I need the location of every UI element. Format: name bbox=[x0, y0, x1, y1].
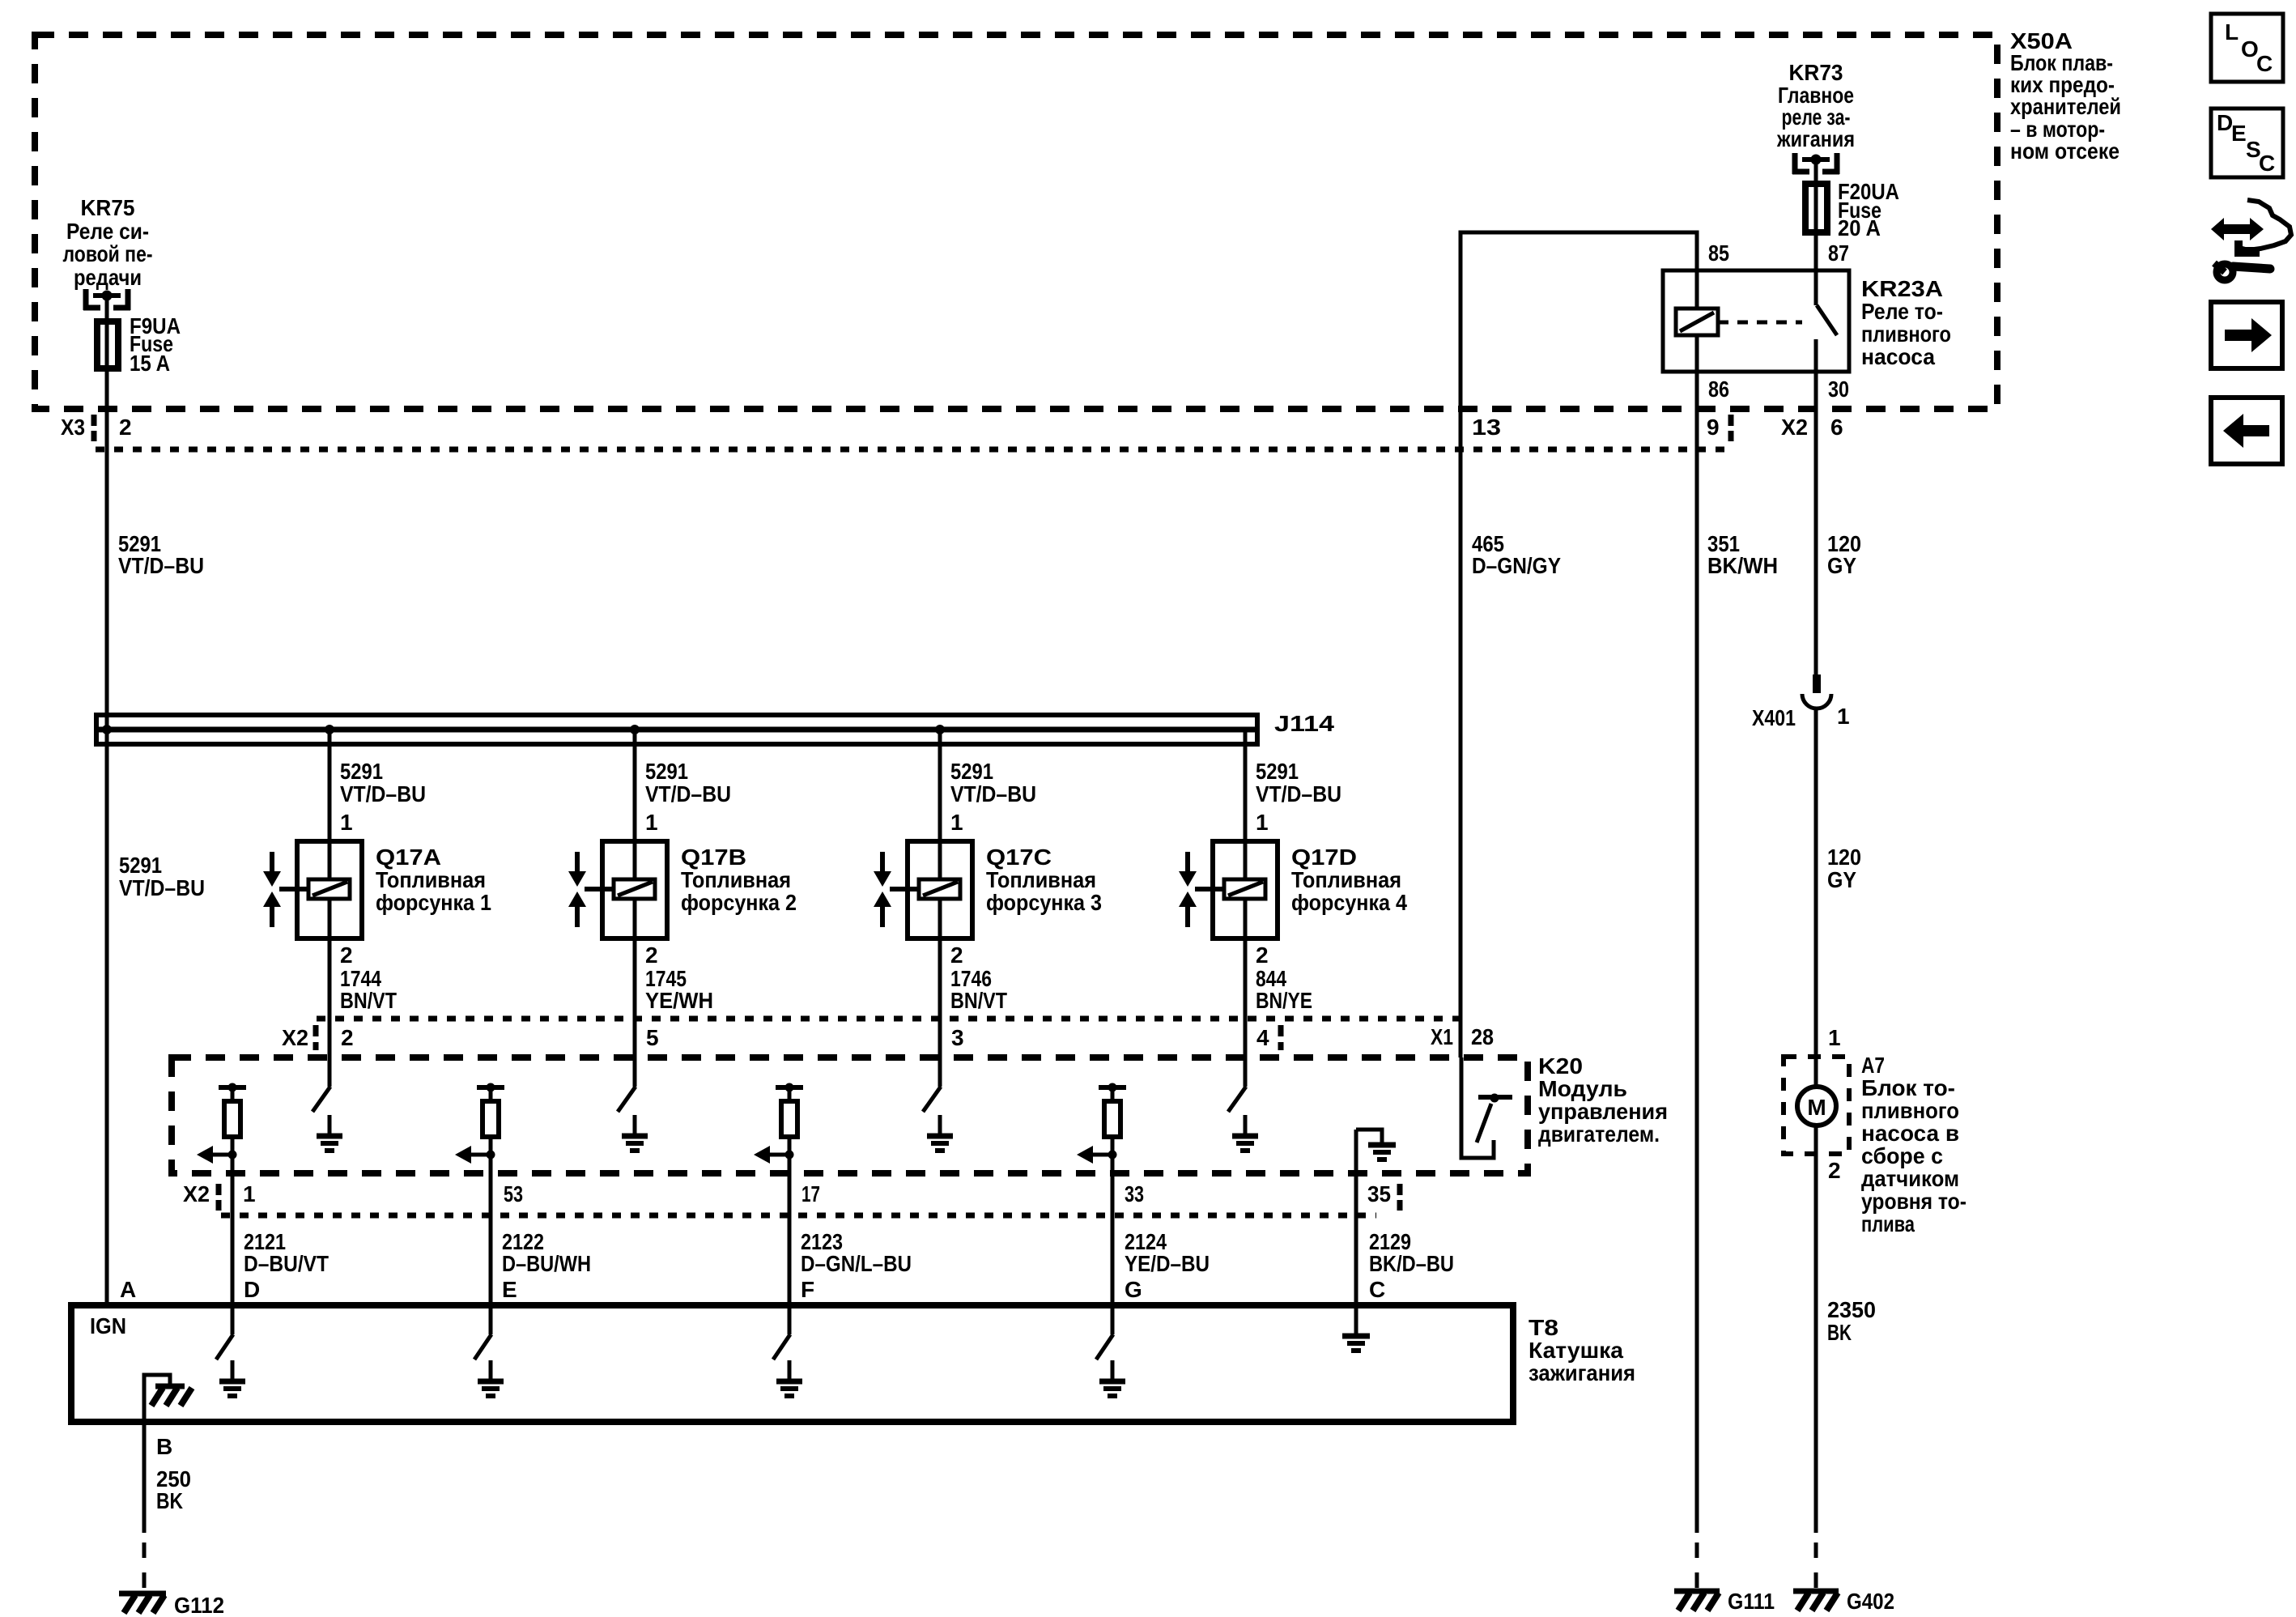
fuel injector Q17D label bbox=[1291, 845, 1407, 915]
wire 120 label (lower) bbox=[1827, 845, 1861, 892]
fuel pump module A7 label bbox=[1861, 1053, 1966, 1236]
fuel injector Q17A coil bbox=[308, 844, 350, 938]
svg-text:3: 3 bbox=[951, 1025, 964, 1050]
svg-text:B: B bbox=[156, 1434, 172, 1459]
ground symbol (K20 injector 2) bbox=[622, 1115, 648, 1151]
wire 5291 label (injector 2) bbox=[645, 759, 731, 806]
svg-text:5291: 5291 bbox=[1256, 759, 1299, 784]
fuel pump module A7 dashed box bbox=[1784, 1057, 1849, 1154]
icon DESC box bbox=[2211, 109, 2283, 177]
svg-text:KR23A: KR23A bbox=[1861, 276, 1943, 301]
wire 465 label bbox=[1472, 531, 1561, 578]
relay KR23A switch contact bbox=[1816, 305, 1837, 372]
wire 5291 label (injector 1) bbox=[340, 759, 426, 806]
wire K20 pin 1 to T8 pin D bbox=[231, 1155, 235, 1308]
wire relay KR23A pin 86 to ground G111 bbox=[1695, 372, 1699, 1597]
svg-text:E: E bbox=[2231, 121, 2247, 146]
wire injector Q17D pin 2 to K20 bbox=[1244, 938, 1248, 1087]
svg-text:13: 13 bbox=[1472, 415, 1501, 440]
svg-text:насоса в: насоса в bbox=[1861, 1121, 1959, 1146]
svg-text:зажигания: зажигания bbox=[1529, 1360, 1635, 1385]
relay KR73 label bbox=[1776, 60, 1855, 151]
K20 switch to ground (injector 1) bbox=[313, 1087, 330, 1112]
svg-text:X2: X2 bbox=[282, 1025, 308, 1050]
svg-text:M: M bbox=[1807, 1095, 1826, 1120]
svg-text:сборе с: сборе с bbox=[1861, 1143, 1943, 1168]
svg-text:87: 87 bbox=[1828, 240, 1849, 266]
svg-text:Q17C: Q17C bbox=[986, 845, 1052, 870]
svg-text:форсунка 4: форсунка 4 bbox=[1291, 890, 1407, 915]
svg-text:D: D bbox=[244, 1277, 260, 1302]
wire K20 pin 33 to T8 pin G bbox=[1111, 1155, 1115, 1308]
relay KR75 label bbox=[63, 195, 153, 290]
svg-text:2: 2 bbox=[645, 943, 658, 968]
engine control module K20 label bbox=[1538, 1053, 1668, 1147]
svg-text:VT/D–BU: VT/D–BU bbox=[1256, 781, 1341, 806]
fuel injector Q17D box bbox=[1213, 841, 1278, 938]
connector X2 separator (injector row) bbox=[313, 1025, 319, 1050]
svg-text:G112: G112 bbox=[174, 1593, 224, 1617]
svg-text:IGN: IGN bbox=[90, 1313, 126, 1338]
svg-text:1: 1 bbox=[950, 810, 963, 835]
fuse F20UA label bbox=[1838, 179, 1899, 240]
svg-text:5291: 5291 bbox=[950, 759, 993, 784]
svg-text:120: 120 bbox=[1827, 845, 1861, 870]
svg-text:1: 1 bbox=[243, 1181, 256, 1206]
connector X401 bbox=[1802, 674, 1831, 709]
svg-text:28: 28 bbox=[1471, 1024, 1494, 1049]
svg-text:Q17A: Q17A bbox=[376, 845, 441, 870]
relay KR23A coil-contact dashed link bbox=[1718, 321, 1802, 325]
svg-text:53: 53 bbox=[504, 1181, 523, 1206]
svg-text:T8: T8 bbox=[1529, 1315, 1558, 1340]
svg-text:Модуль: Модуль bbox=[1538, 1076, 1627, 1101]
wire J114 to injector Q17D pin 1 bbox=[1244, 730, 1248, 844]
svg-text:Блок то-: Блок то- bbox=[1861, 1075, 1955, 1100]
svg-text:86: 86 bbox=[1708, 377, 1729, 402]
svg-text:2350: 2350 bbox=[1827, 1297, 1876, 1322]
svg-text:L: L bbox=[2225, 19, 2239, 45]
svg-text:F: F bbox=[801, 1277, 814, 1302]
fuel injector Q17A label bbox=[376, 845, 491, 915]
ground symbol (T8 D) bbox=[219, 1360, 245, 1396]
wire fuel pump to pin 2 bbox=[1814, 1127, 1818, 1533]
icon forward arrow box bbox=[2211, 302, 2282, 368]
svg-text:датчиком: датчиком bbox=[1861, 1166, 1959, 1191]
svg-text:X3: X3 bbox=[61, 415, 85, 440]
K20 driver resistor column 4 bbox=[1077, 1083, 1126, 1164]
svg-text:2: 2 bbox=[1256, 943, 1269, 968]
svg-text:2: 2 bbox=[1828, 1158, 1841, 1183]
svg-text:D–BU/VT: D–BU/VT bbox=[244, 1251, 329, 1276]
connector X3 separator bbox=[91, 415, 97, 441]
fuse F9UA bbox=[97, 296, 118, 372]
svg-text:K20: K20 bbox=[1538, 1053, 1583, 1079]
wire 5291 label (injector 3) bbox=[950, 759, 1036, 806]
fuel injector Q17D valve symbol bbox=[1179, 852, 1222, 927]
svg-text:форсунка 2: форсунка 2 bbox=[681, 890, 797, 915]
wire 2122 label bbox=[502, 1229, 591, 1276]
svg-text:BK: BK bbox=[1827, 1320, 1852, 1345]
svg-text:C: C bbox=[1369, 1277, 1385, 1302]
svg-text:G402: G402 bbox=[1847, 1589, 1894, 1614]
wire relay KR23A pin 85 to node 13 bbox=[1461, 232, 1697, 1057]
icon back arrow box bbox=[2211, 398, 2282, 464]
svg-text:форсунка 3: форсунка 3 bbox=[986, 890, 1102, 915]
relay KR23A label bbox=[1861, 276, 1951, 369]
wire 2123 label bbox=[801, 1229, 912, 1276]
wire J114 to injector Q17C pin 1 bbox=[938, 730, 942, 844]
svg-text:1: 1 bbox=[1828, 1025, 1841, 1050]
svg-text:BN/YE: BN/YE bbox=[1256, 988, 1312, 1013]
svg-text:30: 30 bbox=[1828, 377, 1849, 402]
wire 1744 label bbox=[340, 966, 397, 1013]
T8 switch to ground (pin D) bbox=[216, 1305, 233, 1360]
T8 switch to ground (pin E) bbox=[474, 1305, 491, 1360]
wire 5291 label (left, mid) bbox=[119, 853, 205, 900]
K20 driver resistor column 2 bbox=[455, 1083, 504, 1164]
svg-text:VT/D–BU: VT/D–BU bbox=[340, 781, 426, 806]
ignition coil T8 box bbox=[71, 1305, 1513, 1422]
engine control module K20 dashed box bbox=[172, 1057, 1528, 1173]
svg-text:Топливная: Топливная bbox=[986, 867, 1096, 892]
fuse F9UA label bbox=[130, 313, 181, 376]
svg-text:KR75: KR75 bbox=[81, 195, 135, 220]
wire dashed to ground G402 bbox=[1814, 1543, 1818, 1597]
connector separator after pin 4 bbox=[1278, 1025, 1284, 1050]
svg-text:Q17D: Q17D bbox=[1291, 845, 1357, 870]
svg-text:YE/WH: YE/WH bbox=[645, 988, 713, 1013]
fuel injector Q17C valve symbol bbox=[874, 852, 917, 927]
svg-text:плива: плива bbox=[1861, 1211, 1915, 1236]
wire connector X401 to fuel pump A7 bbox=[1814, 709, 1818, 1085]
wire J114 to injector Q17B pin 1 bbox=[633, 730, 637, 844]
svg-text:2: 2 bbox=[340, 943, 353, 968]
svg-text:Реле си-: Реле си- bbox=[66, 219, 149, 244]
svg-text:E: E bbox=[502, 1277, 517, 1302]
wire injector Q17A pin 2 to K20 bbox=[328, 938, 332, 1087]
wire T8 pin B to ground G112 bbox=[142, 1422, 147, 1592]
svg-text:4: 4 bbox=[1256, 1025, 1269, 1050]
ignition coil T8 label bbox=[1529, 1315, 1635, 1385]
svg-text:BK/WH: BK/WH bbox=[1707, 553, 1778, 578]
svg-text:VT/D–BU: VT/D–BU bbox=[119, 875, 205, 900]
wire relay KR23A coil pins 85/86 stubs bbox=[1695, 270, 1699, 372]
svg-text:15 A: 15 A bbox=[130, 351, 170, 376]
svg-text:D–BU/WH: D–BU/WH bbox=[502, 1251, 591, 1276]
svg-text:пливного: пливного bbox=[1861, 1098, 1959, 1123]
ground symbol (T8 E) bbox=[478, 1360, 504, 1396]
svg-text:BN/VT: BN/VT bbox=[340, 988, 397, 1013]
svg-text:VT/D–BU: VT/D–BU bbox=[645, 781, 731, 806]
svg-text:X401: X401 bbox=[1752, 705, 1796, 730]
svg-text:Топливная: Топливная bbox=[1291, 867, 1401, 892]
fuel injector Q17C label bbox=[986, 845, 1102, 915]
svg-text:33: 33 bbox=[1125, 1181, 1144, 1206]
wire 250 label bbox=[156, 1466, 191, 1513]
wire 120 label bbox=[1827, 531, 1861, 578]
ground symbol (K20 injector 1) bbox=[317, 1115, 342, 1151]
svg-text:BK: BK bbox=[156, 1488, 183, 1513]
T8 switch to ground (pin F) bbox=[773, 1305, 790, 1360]
fuel injector Q17B coil bbox=[614, 844, 655, 938]
svg-text:C: C bbox=[2259, 151, 2275, 176]
ground symbol (K20 injector 3) bbox=[927, 1115, 953, 1151]
svg-text:двигателем.: двигателем. bbox=[1538, 1121, 1660, 1147]
ground G112 bbox=[119, 1594, 166, 1613]
svg-text:Катушка: Катушка bbox=[1529, 1338, 1623, 1363]
svg-text:2: 2 bbox=[119, 415, 132, 440]
svg-text:VT/D–BU: VT/D–BU bbox=[950, 781, 1036, 806]
wire J114 to injector Q17A pin 1 bbox=[328, 730, 332, 844]
fuel injector Q17B label bbox=[681, 845, 797, 915]
svg-text:пливного: пливного bbox=[1861, 321, 1951, 347]
svg-text:редачи: редачи bbox=[74, 265, 142, 290]
wire 1746 label bbox=[950, 966, 1007, 1013]
K20 driver resistor column 1 bbox=[197, 1083, 246, 1164]
svg-text:BK/D–BU: BK/D–BU bbox=[1369, 1251, 1454, 1276]
K20 driver resistor column 3 bbox=[754, 1083, 803, 1164]
svg-text:C: C bbox=[2256, 51, 2273, 76]
svg-text:VT/D–BU: VT/D–BU bbox=[118, 553, 204, 578]
connector row dotted line bbox=[96, 447, 1728, 453]
relay KR23A box bbox=[1663, 270, 1849, 372]
svg-text:жигания: жигания bbox=[1776, 126, 1855, 151]
svg-text:A7: A7 bbox=[1861, 1053, 1885, 1078]
wire 2124 label bbox=[1125, 1229, 1210, 1276]
svg-text:хранителей: хранителей bbox=[2010, 94, 2121, 119]
svg-text:85: 85 bbox=[1708, 240, 1729, 266]
fuse block X50A dashed box bbox=[35, 35, 1997, 409]
fuse F20UA bbox=[1805, 160, 1827, 236]
icon wrench/adjust bbox=[2211, 200, 2291, 280]
svg-text:насоса: насоса bbox=[1861, 344, 1935, 369]
relay KR23A coil bbox=[1676, 309, 1718, 335]
ground symbol (K20 injector 4) bbox=[1232, 1115, 1258, 1151]
svg-text:6: 6 bbox=[1830, 415, 1843, 440]
wire 2350 label bbox=[1827, 1297, 1876, 1345]
svg-text:9: 9 bbox=[1707, 415, 1720, 440]
svg-text:1: 1 bbox=[1837, 704, 1850, 729]
K20 switch to ground (injector 2) bbox=[618, 1087, 636, 1112]
svg-text:D–GN/GY: D–GN/GY bbox=[1472, 553, 1561, 578]
junction node on J114 (left wire) bbox=[102, 725, 112, 734]
svg-text:управления: управления bbox=[1538, 1099, 1668, 1124]
svg-text:5291: 5291 bbox=[119, 853, 162, 878]
wire 2121 label bbox=[244, 1229, 329, 1276]
connector separator after pin 35 bbox=[1397, 1184, 1403, 1211]
K20 internal ground (pin 35 branch) bbox=[1356, 1130, 1396, 1160]
svg-text:J114: J114 bbox=[1274, 711, 1335, 736]
wire 351 label bbox=[1707, 531, 1778, 578]
ground G111 bbox=[1674, 1591, 1720, 1611]
wire injector Q17B pin 2 to K20 bbox=[633, 938, 637, 1087]
svg-text:17: 17 bbox=[801, 1181, 820, 1206]
svg-text:X1: X1 bbox=[1431, 1024, 1453, 1049]
fuel injector Q17C box bbox=[908, 841, 972, 938]
relay KR73 contact symbol bbox=[1792, 153, 1839, 174]
fuel injector Q17A box bbox=[297, 841, 362, 938]
svg-text:20 A: 20 A bbox=[1838, 215, 1881, 240]
connector X2 separator (right) bbox=[1728, 415, 1734, 441]
wire F9UA fuse to T8 pin A bbox=[105, 372, 109, 1308]
wire 2129 label bbox=[1369, 1229, 1454, 1276]
svg-text:GY: GY bbox=[1827, 553, 1856, 578]
fuel injector Q17C coil bbox=[919, 844, 960, 938]
T8 switch to ground (pin G) bbox=[1096, 1305, 1113, 1360]
wire 5291 label (top left) bbox=[118, 531, 204, 578]
splice J114 bus bbox=[94, 715, 1260, 744]
fuse block X50A label bbox=[2010, 28, 2121, 164]
svg-text:Q17B: Q17B bbox=[681, 845, 746, 870]
wire 844 label bbox=[1256, 966, 1312, 1013]
wire K20 pin 35 to T8 pin C bbox=[1354, 1130, 1358, 1308]
svg-text:Топливная: Топливная bbox=[681, 867, 791, 892]
ground symbol (T8 F) bbox=[776, 1360, 802, 1396]
K20 output switch (pin 28) bbox=[1461, 1057, 1512, 1158]
svg-text:Топливная: Топливная bbox=[376, 867, 486, 892]
ground symbol (T8 G) bbox=[1099, 1360, 1125, 1396]
T8 pin B chassis ground branch bbox=[144, 1375, 192, 1422]
K20 switch to ground (injector 3) bbox=[923, 1087, 941, 1112]
wire 1745 label bbox=[645, 966, 713, 1013]
svg-text:ном отсеке: ном отсеке bbox=[2010, 138, 2120, 164]
fuel pump motor M bbox=[1797, 1087, 1836, 1126]
wire 5291 label (injector 4) bbox=[1256, 759, 1341, 806]
fuel injector Q17B valve symbol bbox=[568, 852, 612, 927]
connector X2 separator (K20 lower row) bbox=[216, 1184, 222, 1211]
fuel injector Q17B box bbox=[602, 841, 667, 938]
svg-text:2: 2 bbox=[950, 943, 963, 968]
T8 internal ground (pin C) bbox=[1342, 1305, 1370, 1351]
relay KR75 contact symbol bbox=[83, 289, 130, 310]
svg-text:G111: G111 bbox=[1728, 1589, 1775, 1614]
svg-text:5291: 5291 bbox=[340, 759, 383, 784]
svg-text:2: 2 bbox=[341, 1025, 354, 1050]
svg-text:GY: GY bbox=[1827, 867, 1856, 892]
wire injector Q17C pin 2 to K20 bbox=[938, 938, 942, 1087]
connector row dotted line (K20 lower) bbox=[221, 1213, 1376, 1219]
wire K20 pin 53 to T8 pin E bbox=[489, 1155, 493, 1308]
svg-text:5: 5 bbox=[646, 1025, 659, 1050]
svg-text:1: 1 bbox=[340, 810, 353, 835]
junction node on J114 (injector 2) bbox=[630, 725, 640, 734]
svg-text:X2: X2 bbox=[1781, 415, 1808, 440]
wire relay KR23A pin 30 to connector X401 bbox=[1814, 372, 1818, 674]
svg-text:5291: 5291 bbox=[645, 759, 688, 784]
svg-text:35: 35 bbox=[1367, 1181, 1391, 1206]
svg-text:уровня то-: уровня то- bbox=[1861, 1189, 1966, 1214]
svg-text:A: A bbox=[120, 1277, 136, 1302]
icon LOC box bbox=[2211, 14, 2283, 82]
connector row dotted line (injector X2) bbox=[317, 1016, 1462, 1022]
svg-text:X2: X2 bbox=[183, 1181, 210, 1206]
fuel injector Q17A valve symbol bbox=[263, 852, 307, 927]
ground G402 bbox=[1793, 1591, 1839, 1611]
junction node on J114 (injector 3) bbox=[935, 725, 945, 734]
junction node on J114 (injector 1) bbox=[325, 725, 334, 734]
svg-text:форсунка 1: форсунка 1 bbox=[376, 890, 491, 915]
fuel injector Q17D coil bbox=[1224, 844, 1265, 938]
svg-text:G: G bbox=[1125, 1277, 1142, 1302]
wire fuse F20UA to relay KR23A pin 87 bbox=[1814, 236, 1818, 305]
svg-text:D–GN/L–BU: D–GN/L–BU bbox=[801, 1251, 912, 1276]
svg-text:KR73: KR73 bbox=[1789, 60, 1843, 85]
svg-text:Реле то-: Реле то- bbox=[1861, 299, 1943, 324]
svg-text:ловой пе-: ловой пе- bbox=[63, 241, 153, 266]
K20 switch to ground (injector 4) bbox=[1228, 1087, 1246, 1112]
svg-text:BN/VT: BN/VT bbox=[950, 988, 1007, 1013]
svg-text:YE/D–BU: YE/D–BU bbox=[1125, 1251, 1210, 1276]
svg-text:1: 1 bbox=[1256, 810, 1269, 835]
svg-text:1: 1 bbox=[645, 810, 658, 835]
wire K20 pin 17 to T8 pin F bbox=[788, 1155, 792, 1308]
